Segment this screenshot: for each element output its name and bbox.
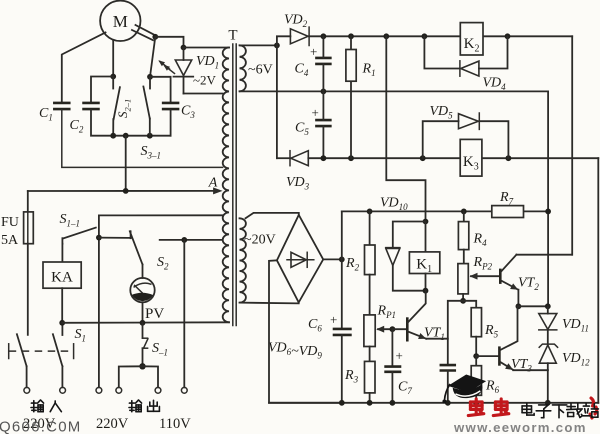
node C5 bottom: [321, 155, 327, 161]
wire VD2 anode feed: [277, 36, 291, 45]
capacitor C2: [70, 103, 100, 135]
transformer T core: [233, 44, 236, 326]
wire positive top rail: [309, 35, 572, 37]
terminal output common: [96, 387, 102, 393]
node C4 bottom / C5 top: [321, 89, 327, 95]
node KA bottom: [59, 320, 65, 326]
switch S2-1: [113, 77, 132, 136]
wire bridge minus to ground rail: [269, 260, 342, 403]
wire 110V tap line: [160, 239, 223, 241]
diode VD2: [284, 13, 309, 46]
node C8 ground: [445, 400, 451, 406]
node 110V tap: [181, 237, 187, 243]
transistor VT2: [500, 255, 539, 292]
wire divider rail: [342, 210, 548, 212]
wire 6V top tap: [240, 44, 277, 46]
node VD10 feed: [383, 33, 389, 39]
node VT2 emitter / VT3 collector: [516, 303, 522, 309]
wire RP2 bottom to emitter resistor leg: [448, 301, 463, 365]
switch S1 pole A: [17, 334, 27, 387]
wire right chain vertical S1-1 to terminal: [98, 215, 100, 387]
wire emitter node to VD11: [518, 305, 547, 307]
node 6V top tap: [274, 43, 280, 49]
transformer T primary winding: [223, 48, 229, 323]
node center tap junction: [123, 133, 129, 139]
node RP1 wiper: [390, 326, 396, 332]
svg-text:T: T: [228, 28, 237, 44]
node bridge output: [339, 257, 345, 263]
wire negative rail to K3: [308, 157, 598, 159]
svg-text:PV: PV: [145, 306, 164, 322]
zener diode across K1: [386, 222, 426, 291]
wire bridge plus output: [323, 258, 342, 260]
transformer secondary 20V winding: [240, 218, 246, 302]
wire mid rail 6V bottom: [240, 90, 548, 92]
resistor R1: [346, 36, 376, 158]
node A with arrow tap: [28, 176, 223, 195]
watermark chongchong red logo: [468, 398, 597, 418]
svg-text:+: +: [310, 44, 317, 59]
node S1-1 right: [96, 235, 102, 241]
wire K3 rail right corner down: [597, 158, 599, 403]
wire 110V tap to terminal: [183, 240, 185, 387]
diode VD3: [277, 151, 310, 192]
potentiometer RP1: [364, 304, 396, 347]
node A junction dot: [123, 188, 129, 194]
wire motor bottom lead: [112, 41, 114, 77]
svg-text:Q606.C0M: Q606.C0M: [0, 419, 80, 434]
capacitor C4: [295, 36, 332, 91]
bridge rectifier VD6~VD9: [268, 215, 323, 361]
resistor R7: [492, 190, 524, 218]
wire C3 bottom lead: [170, 110, 172, 136]
wire ground rail bottom: [269, 402, 598, 404]
wire top rail right corner down: [571, 36, 573, 254]
wire PV to bottom rail: [142, 302, 144, 323]
node R4 top: [461, 209, 467, 215]
wire bottom bus of S2-1/S3-1: [113, 135, 170, 137]
wire junction to C3: [150, 77, 171, 102]
resistor R2: [345, 211, 375, 315]
terminal output 220V: [116, 387, 122, 393]
wire 20V bottom to bridge: [240, 302, 299, 303]
wire S2 to voltmeter PV: [142, 265, 144, 279]
relay contact S1-1: [60, 212, 96, 244]
wire VT3 emitter line: [513, 369, 548, 371]
transformer secondary 6V winding: [240, 45, 246, 91]
terminal output shared: [155, 387, 161, 393]
transistor VT1: [392, 291, 444, 342]
wire PV top rail to transformer tap: [99, 214, 223, 216]
wire KA to bottom rail: [61, 288, 63, 323]
resistor R3: [344, 347, 375, 403]
wire S1-1 node to S2 contact: [99, 237, 130, 239]
diode VD5: [423, 104, 509, 158]
node VD11 top: [545, 303, 551, 309]
wire RP2 bottom to R5: [463, 301, 476, 308]
wire VT1 emitter: [426, 338, 448, 340]
potentiometer RP2: [458, 255, 500, 301]
wire motor left lead to C1: [62, 33, 106, 103]
node R3 ground: [367, 400, 373, 406]
motor right double lead: [132, 25, 154, 40]
svg-text:www.eeworm.com: www.eeworm.com: [453, 420, 587, 434]
wire FU to switch S1 pole A: [27, 244, 29, 335]
svg-text:~2V: ~2V: [193, 73, 217, 88]
node K1 top: [423, 219, 429, 225]
wire LED bottom to transformer tap: [184, 93, 223, 95]
terminal input N: [60, 387, 66, 393]
node K2 right: [505, 33, 511, 39]
wire motor junction to LED branch: [155, 37, 183, 48]
relay K3: [460, 139, 482, 176]
svg-text:FU: FU: [1, 215, 19, 230]
node R7 right: [545, 209, 551, 215]
wire mid rail corner down: [547, 91, 549, 306]
node K2 left: [422, 33, 428, 39]
wire C1 bottom to transformer tap: [62, 110, 223, 168]
node R2 top: [367, 209, 373, 215]
fuse FU 5A: [1, 191, 33, 248]
switch S3-1: [141, 77, 162, 161]
resistor R6: [471, 356, 499, 403]
zener diode VD11: [539, 306, 589, 333]
label output terminals 输出: [129, 400, 159, 412]
switch S2: [130, 231, 169, 271]
node VD5 right: [506, 155, 512, 161]
relay K2: [460, 23, 483, 55]
node ground right: [545, 400, 551, 406]
wire VD3 cathode feed vertical: [276, 45, 278, 158]
relay coil KA: [43, 262, 81, 288]
node R1 bottom: [348, 155, 354, 161]
LED VD1 with 2V label: [158, 48, 219, 94]
wire LED top to transformer: [184, 47, 230, 49]
wire S1-1 to KA: [61, 244, 63, 262]
node C7 ground: [390, 400, 396, 406]
svg-text:5A: 5A: [1, 233, 19, 248]
wire VD10 feed from top rail: [386, 36, 425, 221]
wire bridge output up to divider rail: [341, 211, 343, 328]
wire 20V top to bridge: [246, 213, 299, 218]
capacitor C1: [39, 103, 71, 123]
svg-text:+: +: [330, 312, 337, 327]
svg-text:~20V: ~20V: [244, 233, 276, 248]
node motor right junction: [152, 34, 158, 40]
node S-1 bottom split: [139, 363, 145, 369]
svg-text:110V: 110V: [159, 416, 191, 432]
transistor VT3: [476, 306, 532, 373]
resistor R5: [471, 308, 498, 356]
capacitor C3: [162, 103, 195, 120]
terminal output 110V: [181, 387, 187, 393]
node VD5 left: [420, 155, 426, 161]
wire center vertical to node A line: [125, 136, 127, 191]
wire split to output 220V terminal: [119, 366, 143, 387]
node C3/S3-1 junction: [147, 74, 153, 80]
svg-text:M: M: [113, 12, 128, 31]
node R6 ground: [473, 400, 479, 406]
wire VT2 emitter down: [517, 290, 519, 307]
capacitor C7: [384, 329, 412, 403]
wire split to output 110V side terminal: [143, 366, 159, 387]
watermark site name: [522, 404, 598, 418]
diode VD4 freewheel: [424, 36, 507, 92]
resistor R4: [458, 211, 487, 263]
relay K1: [409, 222, 439, 291]
node C4 top: [321, 33, 327, 39]
node R5/R6/VT3 base: [473, 353, 479, 359]
svg-text:+: +: [396, 348, 403, 363]
voltmeter PV: [130, 278, 164, 322]
svg-text:220V: 220V: [96, 416, 129, 432]
switch S1 gang linkage: [9, 327, 86, 359]
wire junction down to S3-1: [150, 37, 155, 77]
node S3-1 bottom: [147, 133, 153, 139]
terminal input L: [24, 387, 30, 393]
svg-text:A: A: [208, 176, 218, 191]
node RP2 bottom: [460, 298, 466, 304]
watermark graduation cap logo: [442, 372, 488, 403]
wire bottom rail to transformer: [62, 321, 229, 324]
node motor/C2/S2-1 junction: [110, 74, 116, 80]
svg-text:KA: KA: [51, 270, 73, 286]
node LED top: [181, 45, 187, 51]
node C6 ground: [339, 400, 345, 406]
wire C2 bottom lead: [91, 110, 113, 136]
node K1 bottom: [423, 288, 429, 294]
node S2-1 bottom: [110, 133, 116, 139]
wire VD12 to ground rail: [547, 370, 549, 403]
wire junction to C2: [91, 77, 113, 103]
capacitor C6: [308, 312, 352, 403]
node PV bottom: [140, 320, 146, 326]
zener diode VD12: [539, 330, 590, 370]
capacitor C8 emitter bypass: [440, 365, 457, 403]
label input terminals 输入: [31, 400, 61, 412]
switch S1 pole B: [53, 323, 63, 388]
svg-text:+: +: [312, 105, 319, 120]
switch S-1: [143, 323, 169, 367]
capacitor C5: [295, 91, 332, 158]
node R1 top: [348, 33, 354, 39]
motor M: [100, 1, 140, 41]
wire VT2 collector line: [516, 254, 572, 256]
svg-text:~6V: ~6V: [248, 63, 273, 78]
